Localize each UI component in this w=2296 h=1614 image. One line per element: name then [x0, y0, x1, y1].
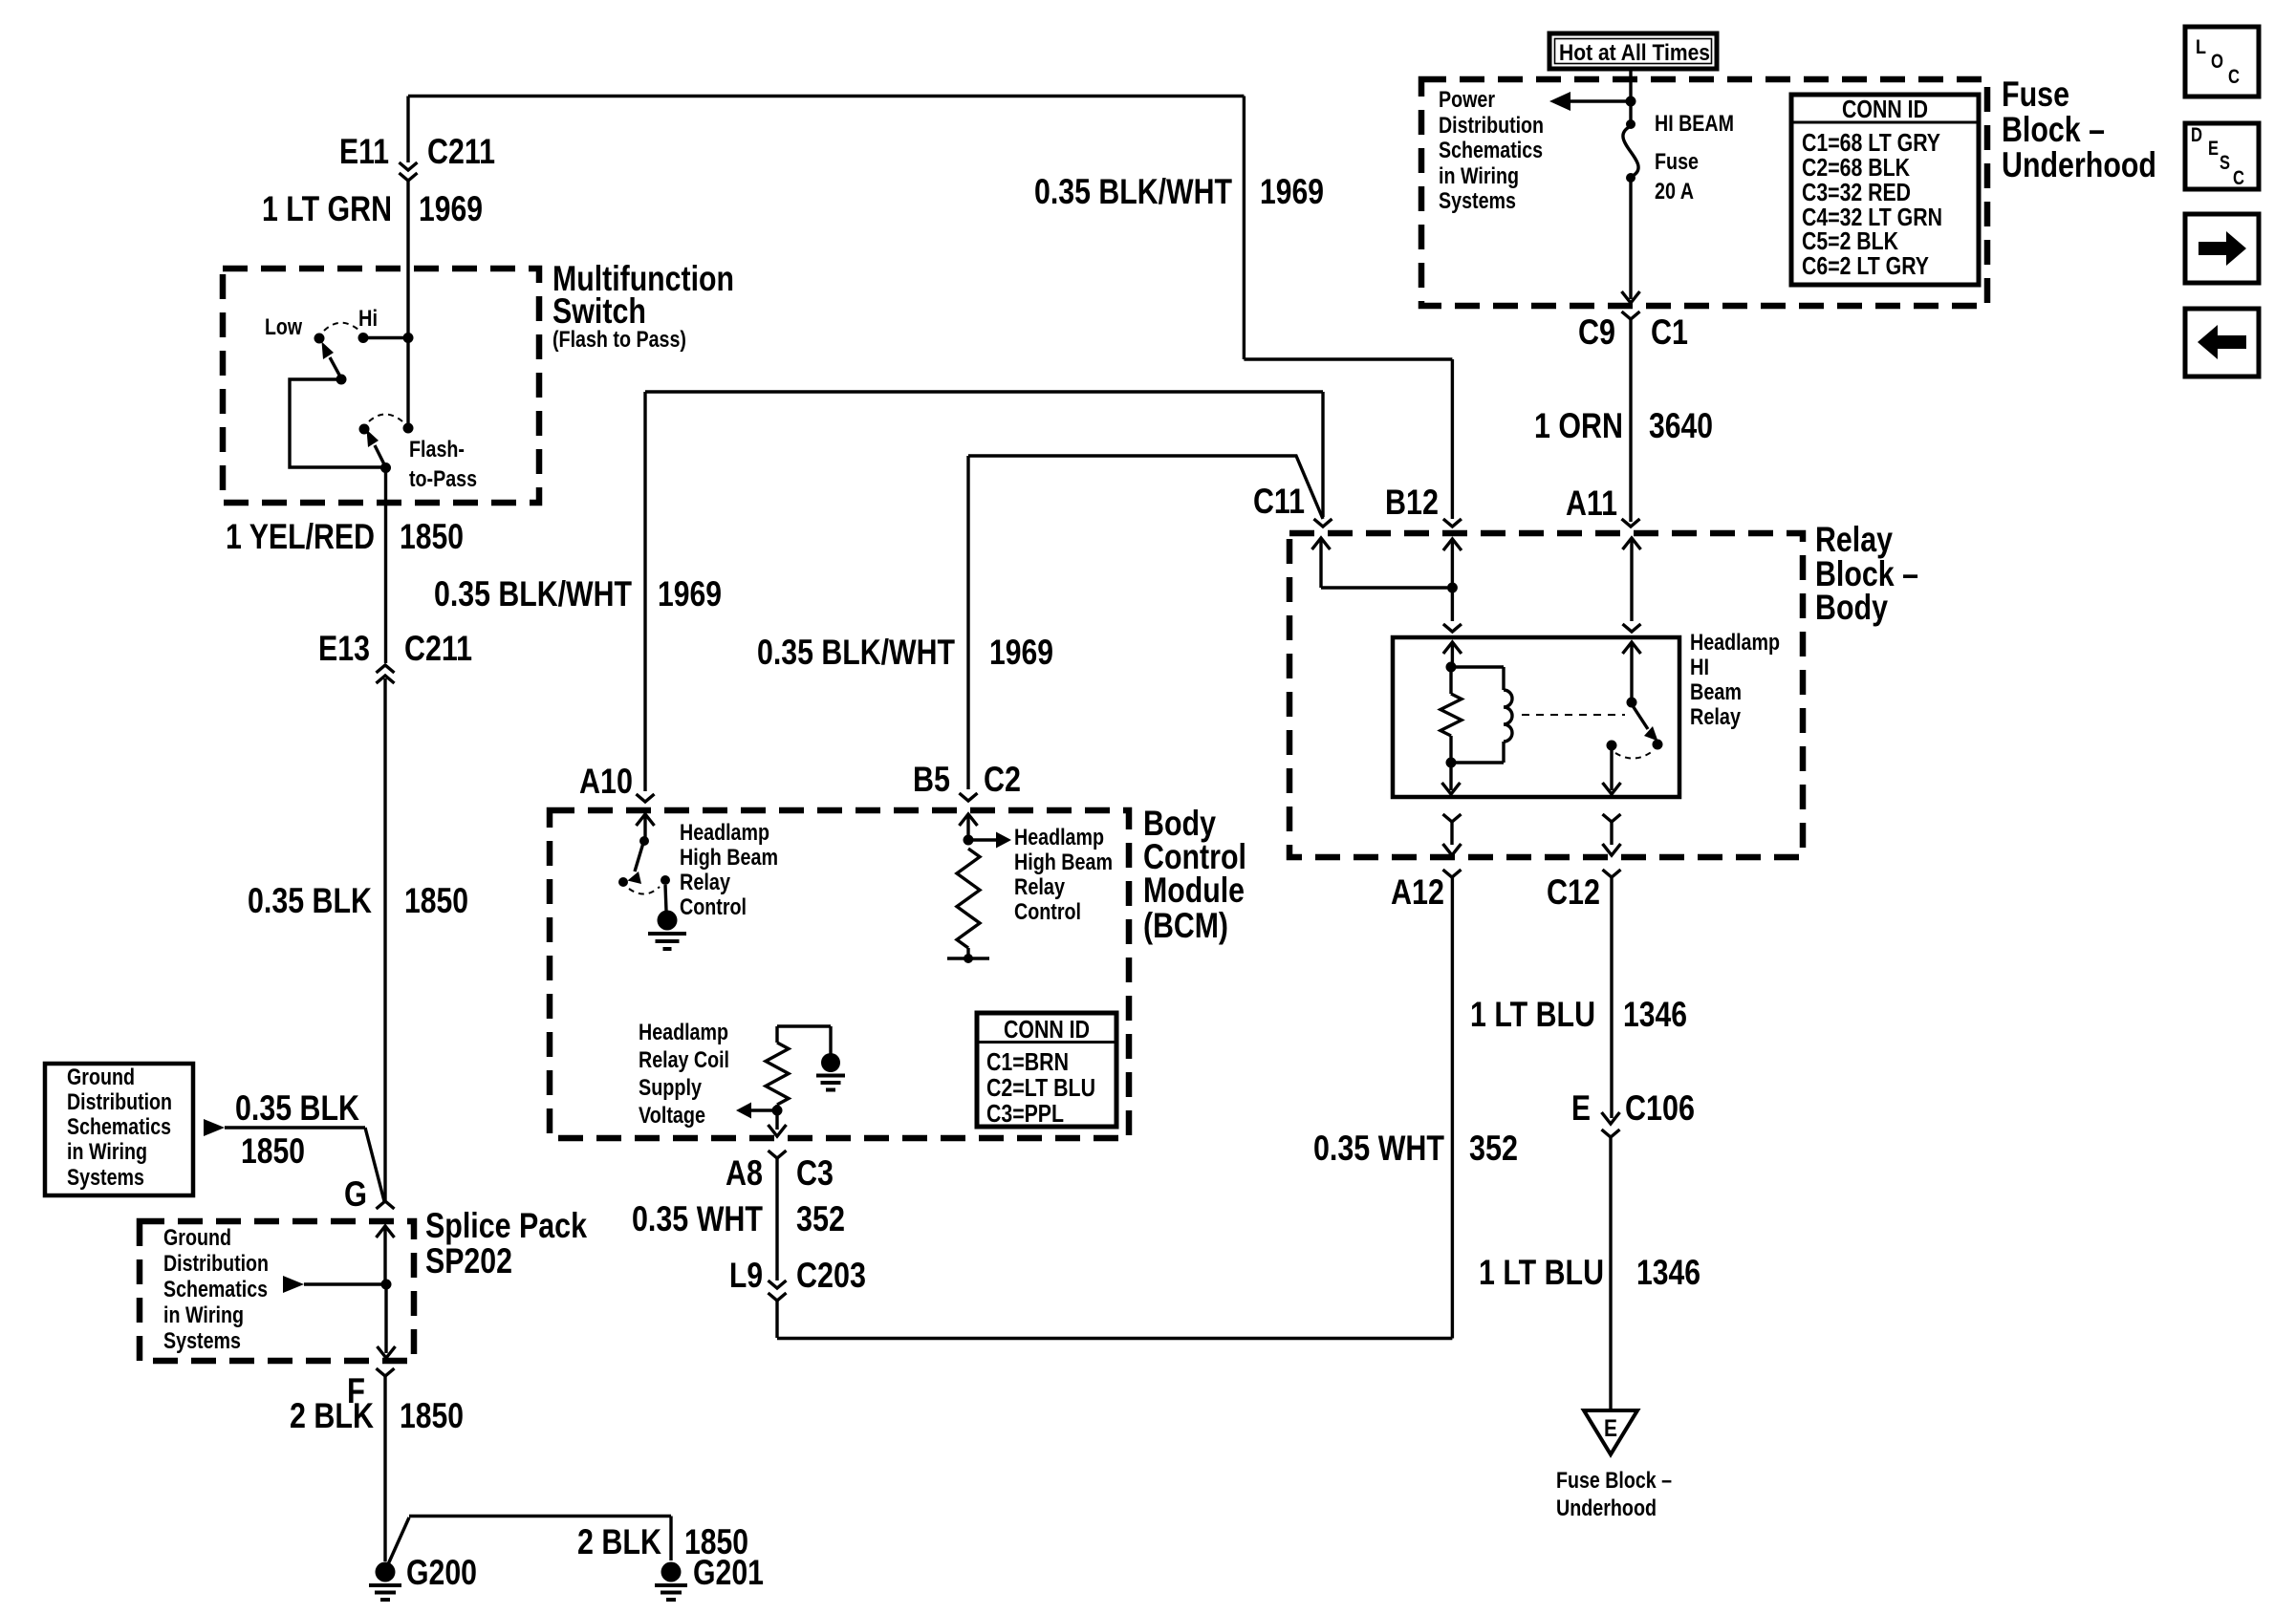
label Power Distribution Schematics in Wiring Systems [1439, 87, 1544, 214]
svg-text:Headlamp: Headlamp [1690, 630, 1780, 656]
svg-text:C9: C9 [1578, 312, 1615, 352]
svg-text:Distribution: Distribution [67, 1089, 172, 1115]
svg-text:352: 352 [796, 1199, 845, 1238]
svg-text:1 LT BLU: 1 LT BLU [1470, 995, 1595, 1034]
inductor relay coil [1504, 667, 1512, 763]
node relay coil top [1446, 662, 1457, 673]
resistor relay suppression [1440, 667, 1462, 762]
wire hi-beam feed inside switch [406, 335, 409, 427]
arrow power distribution reference (left) [1549, 92, 1631, 111]
svg-text:1850: 1850 [400, 517, 464, 556]
node splice SP202 [381, 1280, 392, 1290]
ground G200 [376, 1562, 396, 1582]
fuse block underhood outline (dashed box) [1421, 79, 1987, 306]
svg-text:352: 352 [1469, 1129, 1518, 1168]
svg-text:Headlamp: Headlamp [639, 1020, 728, 1045]
node hi-beam wire end at flash contact [403, 423, 414, 434]
switch headlamp high beam relay control (BCM driver) [618, 836, 670, 887]
svg-text:1850: 1850 [404, 881, 468, 920]
connector C211 pin E11 (in-line, downward) [400, 162, 418, 335]
wire 1969 from E11 to fuse-block branch (top run) [408, 97, 1452, 520]
svg-text:0.35 WHT: 0.35 WHT [1313, 1129, 1444, 1168]
svg-text:Headlamp: Headlamp [1014, 825, 1104, 850]
connector pin A8/C3 below BCM [769, 1151, 787, 1280]
label Ground Distribution Schematics in Wiring Systems (solid box) [67, 1065, 172, 1191]
label Fuse Block - Underhood (top right) [2002, 75, 2156, 184]
svg-text:1 YEL/RED: 1 YEL/RED [226, 517, 375, 556]
connector A11 at relay (upper) [1623, 624, 1641, 632]
connector C203 pin L9 (in-line) [769, 1280, 787, 1338]
arrow BCM B5 signal (right) [968, 832, 1011, 849]
relay coil feed pin (B12) [1443, 642, 1462, 666]
svg-text:1969: 1969 [1260, 172, 1324, 211]
label Relay Block - Body [1815, 520, 1918, 627]
dashed throw arc relay [1615, 751, 1653, 759]
svg-text:in Wiring: in Wiring [163, 1302, 244, 1328]
svg-text:in Wiring: in Wiring [1439, 163, 1519, 189]
connector A11 (wire ends) [1622, 519, 1640, 527]
ground distribution reference box [45, 1064, 193, 1195]
svg-text:(BCM): (BCM) [1143, 906, 1228, 945]
svg-text:D: D [2191, 124, 2202, 146]
svg-text:High Beam: High Beam [1014, 850, 1113, 875]
svg-text:1969: 1969 [658, 574, 722, 613]
connector G into splice pack [377, 1201, 395, 1284]
svg-text:C1=BRN: C1=BRN [986, 1047, 1069, 1076]
connector relay lower left (A12 leg) [1443, 814, 1462, 855]
ground internal BCM (driver) [658, 911, 678, 931]
ground G201 [661, 1562, 682, 1582]
fuse F-HI BEAM 20A [1623, 119, 1638, 183]
wire C11 entry into relay block [1312, 538, 1448, 588]
svg-text:20 A: 20 A [1655, 179, 1694, 204]
node B5 input junction [964, 835, 974, 846]
svg-text:Fuse: Fuse [1655, 149, 1699, 175]
arrow BCM coil supply (left) [736, 1103, 777, 1119]
svg-text:Fuse Block –: Fuse Block – [1556, 1468, 1672, 1494]
svg-text:Flash-: Flash- [409, 437, 465, 463]
svg-text:2 BLK: 2 BLK [290, 1396, 374, 1435]
svg-text:E: E [2208, 138, 2219, 160]
svg-text:B5: B5 [913, 760, 950, 799]
svg-text:Relay Coil: Relay Coil [639, 1047, 729, 1073]
label Headlamp Relay Coil Supply Voltage [639, 1020, 729, 1129]
svg-text:C2: C2 [984, 760, 1021, 799]
wire 1969 BCM B5 branch [968, 456, 1323, 789]
svg-text:C: C [2233, 167, 2244, 189]
svg-text:L: L [2196, 36, 2206, 58]
wire coil return exit [1442, 764, 1461, 794]
svg-text:G200: G200 [406, 1553, 477, 1592]
svg-text:Beam: Beam [1690, 679, 1742, 705]
connector B12 at relay (upper) [1443, 624, 1462, 632]
svg-text:C3: C3 [796, 1153, 834, 1193]
wire B12 entry into relay block [1443, 539, 1462, 621]
relay switch moving contact [1653, 740, 1663, 750]
connector C106 pin E (in-line) [1602, 1130, 1620, 1409]
headlamp HI beam relay K1 outline [1393, 637, 1679, 797]
label Multifunction Switch [552, 259, 734, 353]
svg-text:C3=PPL: C3=PPL [986, 1099, 1064, 1128]
svg-text:A8: A8 [726, 1153, 763, 1193]
svg-text:C106: C106 [1625, 1088, 1695, 1128]
svg-text:Relay: Relay [1014, 874, 1066, 900]
multifunction switch S1 outline (dashed box) [223, 269, 539, 503]
contact Low [314, 334, 325, 344]
svg-text:HI: HI [1690, 655, 1709, 680]
svg-text:Distribution: Distribution [1439, 113, 1544, 139]
svg-text:C6=2 LT GRY: C6=2 LT GRY [1802, 251, 1929, 280]
svg-text:Systems: Systems [1439, 188, 1516, 214]
termination bar BCM B5 [947, 948, 989, 963]
svg-text:Low: Low [265, 314, 302, 340]
svg-text:Systems: Systems [163, 1328, 241, 1354]
contact Hi [358, 333, 369, 343]
svg-text:L9: L9 [729, 1256, 763, 1295]
svg-text:Power: Power [1439, 87, 1495, 113]
off-page triangle E (to fuse block) [1584, 1410, 1637, 1454]
label HI BEAM Fuse 20 A [1655, 111, 1734, 204]
svg-text:Relay: Relay [1815, 520, 1893, 559]
svg-text:C211: C211 [404, 629, 472, 668]
wire relay output exit [1603, 747, 1621, 794]
relay switch arm [1632, 704, 1658, 742]
svg-text:Control: Control [1014, 899, 1081, 925]
wire dimmer common (U-run) [290, 379, 384, 467]
svg-text:B12: B12 [1385, 483, 1439, 522]
svg-text:Splice Pack: Splice Pack [425, 1206, 587, 1245]
node battery feed junction [1626, 97, 1636, 107]
node relay coil bottom [1446, 758, 1457, 768]
svg-text:Fuse: Fuse [2002, 75, 2069, 114]
connector C1 pin C9 (fuse block output) [1622, 312, 1640, 522]
switch arm flash-to-pass (arrow) [367, 430, 392, 474]
svg-text:3640: 3640 [1649, 406, 1713, 445]
svg-text:Systems: Systems [67, 1165, 144, 1191]
svg-text:Underhood: Underhood [1556, 1496, 1657, 1521]
fuse block CONN ID table [1791, 95, 1979, 285]
wire coil bottom link [1451, 761, 1504, 764]
svg-text:S: S [2220, 152, 2230, 174]
dashed throw arc Low-Hi [324, 323, 358, 331]
svg-text:C1: C1 [1651, 312, 1688, 352]
wire 1850 from switch to C211-E13 [384, 467, 387, 663]
svg-text:SP202: SP202 [425, 1241, 512, 1280]
label Flash-to-Pass [409, 437, 477, 492]
splice pack SP202 outline (dashed box) [140, 1221, 414, 1361]
wire battery feed into fuse [1629, 69, 1632, 121]
svg-text:E: E [1571, 1088, 1591, 1128]
wire Hi contact branch [363, 336, 408, 339]
svg-text:Module: Module [1143, 871, 1245, 910]
label Headlamp High Beam Relay Control (B5) [1014, 825, 1113, 925]
wire E11 stub [406, 97, 409, 163]
connector C11 (wire ends) [1314, 519, 1332, 527]
svg-text:1 LT GRN: 1 LT GRN [262, 189, 392, 228]
svg-text:1969: 1969 [989, 633, 1053, 672]
wire A8 exit [769, 1110, 787, 1136]
svg-text:0.35 WHT: 0.35 WHT [632, 1199, 763, 1238]
svg-text:A11: A11 [1566, 484, 1617, 523]
svg-text:G201: G201 [693, 1553, 764, 1592]
svg-text:Voltage: Voltage [639, 1103, 705, 1129]
svg-text:Distribution: Distribution [163, 1251, 269, 1277]
connector A12 below relay block [1443, 870, 1462, 877]
reference pointer arrow (to 1850 wire) [204, 1119, 365, 1136]
svg-text:1 ORN: 1 ORN [1534, 406, 1623, 445]
reference pointer arrow inside splice pack [283, 1276, 386, 1293]
svg-text:to-Pass: to-Pass [409, 466, 477, 492]
svg-text:HI BEAM: HI BEAM [1655, 111, 1734, 137]
wire 1346 from C12 [1602, 877, 1620, 1124]
svg-text:Block –: Block – [2002, 110, 2105, 149]
body control module outline (dashed box) [550, 810, 1129, 1138]
connector C211 pin E13 (in-line, upward) [377, 665, 395, 1200]
wire coil top link [1451, 665, 1504, 668]
dashed throw arc BCM driver [629, 887, 660, 894]
connector C12 below relay block [1603, 870, 1621, 877]
svg-text:A12: A12 [1391, 872, 1444, 912]
nav button next (right arrow) [2185, 214, 2259, 283]
svg-text:C211: C211 [427, 132, 495, 171]
svg-text:C12: C12 [1547, 872, 1600, 912]
svg-text:CONN ID: CONN ID [1842, 95, 1928, 123]
svg-text:Control: Control [680, 894, 747, 920]
svg-text:C203: C203 [796, 1256, 866, 1295]
wire A11 entry into relay block [1623, 538, 1641, 621]
svg-text:Hot at All Times: Hot at All Times [1559, 40, 1710, 66]
svg-text:Body: Body [1815, 588, 1888, 627]
relay switch NO contact [1607, 741, 1617, 751]
relay switch common pin (A11) [1623, 642, 1641, 700]
svg-text:Supply: Supply [639, 1075, 703, 1101]
nav button LOC [2185, 27, 2259, 97]
svg-text:1 LT BLU: 1 LT BLU [1479, 1253, 1604, 1292]
svg-text:Hi: Hi [358, 306, 378, 332]
wire 352 run to relay block A12 [777, 877, 1452, 1339]
connector relay lower right (C12 leg) [1603, 814, 1621, 855]
svg-text:in Wiring: in Wiring [67, 1139, 147, 1165]
nav button DESC [2185, 123, 2259, 189]
node coil supply output [772, 1106, 783, 1116]
wire splice to F [378, 1284, 396, 1358]
connector F below splice pack [377, 1368, 395, 1561]
wire 1969 BCM A10 branch [645, 392, 1323, 791]
wire fuse output [1622, 178, 1640, 303]
svg-text:CONN ID: CONN ID [1004, 1015, 1090, 1044]
svg-text:High Beam: High Beam [680, 845, 778, 871]
connector pin B5/C2 into BCM [960, 793, 978, 838]
wire 2 BLK to G201 [388, 1517, 671, 1565]
hot at all times tag box [1549, 33, 1717, 69]
label Headlamp High Beam Relay Control (A10) [680, 820, 778, 920]
svg-text:1346: 1346 [1623, 995, 1687, 1034]
nav button previous (left arrow) [2185, 309, 2259, 377]
svg-text:E: E [1604, 1415, 1617, 1442]
svg-text:C2=LT BLU: C2=LT BLU [986, 1073, 1095, 1102]
svg-text:Switch: Switch [552, 291, 646, 331]
label Fuse Block - Underhood (bottom) [1556, 1468, 1672, 1521]
svg-text:Ground: Ground [163, 1225, 231, 1251]
svg-text:Headlamp: Headlamp [680, 820, 769, 846]
svg-text:0.35 BLK/WHT: 0.35 BLK/WHT [1034, 172, 1232, 211]
svg-text:1850: 1850 [241, 1131, 305, 1171]
BCM CONN ID table [977, 1013, 1116, 1128]
dashed actuation link [1522, 714, 1625, 716]
contact flash-to-pass [359, 424, 370, 435]
svg-text:Relay: Relay [680, 870, 731, 895]
svg-text:(Flash to Pass): (Flash to Pass) [552, 327, 686, 353]
svg-text:C11: C11 [1253, 482, 1305, 521]
dashed throw arc flash-to-pass [369, 415, 402, 422]
switch arm dimmer (arrow to Low) [322, 342, 347, 385]
svg-text:1346: 1346 [1636, 1253, 1700, 1292]
svg-text:2 BLK: 2 BLK [577, 1522, 661, 1561]
svg-text:Schematics: Schematics [67, 1114, 171, 1140]
relay block body outline (dashed box) [1289, 533, 1803, 857]
label Ground Distribution Schematics in Wiring Systems (splice box) [163, 1225, 269, 1354]
label Headlamp HI Beam Relay [1690, 630, 1780, 730]
ground internal BCM (coil supply) [816, 1026, 845, 1090]
svg-text:0.35 BLK: 0.35 BLK [235, 1088, 359, 1128]
svg-text:0.35 BLK/WHT: 0.35 BLK/WHT [757, 633, 955, 672]
svg-text:1969: 1969 [419, 189, 483, 228]
connector B12 (wire ends) [1443, 519, 1462, 527]
svg-text:O: O [2211, 51, 2223, 73]
node Hi contact junction [403, 333, 414, 343]
svg-text:Schematics: Schematics [163, 1277, 268, 1302]
svg-text:Ground: Ground [67, 1065, 135, 1090]
svg-text:Schematics: Schematics [1439, 138, 1543, 163]
node B12 tie junction [1447, 583, 1458, 593]
svg-text:1850: 1850 [400, 1396, 464, 1435]
svg-text:E11: E11 [339, 132, 389, 171]
svg-text:G: G [344, 1174, 367, 1214]
relay switch pivot [1627, 698, 1637, 708]
connector pin A10 into BCM [637, 794, 655, 838]
svg-text:A10: A10 [579, 762, 633, 801]
resistor BCM high beam relay control input [957, 849, 980, 948]
resistor headlamp relay coil supply voltage [766, 1026, 831, 1109]
svg-text:0.35 BLK/WHT: 0.35 BLK/WHT [434, 574, 632, 613]
svg-text:Underhood: Underhood [2002, 145, 2156, 184]
svg-text:C: C [2228, 66, 2240, 88]
svg-text:Relay: Relay [1690, 704, 1742, 730]
wire BCM driver to ground [665, 885, 666, 911]
label Body Control Module (BCM) [1143, 804, 1246, 945]
wire 0.35 BLK 1850 reference branch [365, 1128, 384, 1201]
label Splice Pack SP202 [425, 1206, 587, 1280]
svg-text:E13: E13 [318, 629, 370, 668]
svg-text:0.35 BLK: 0.35 BLK [248, 881, 372, 920]
